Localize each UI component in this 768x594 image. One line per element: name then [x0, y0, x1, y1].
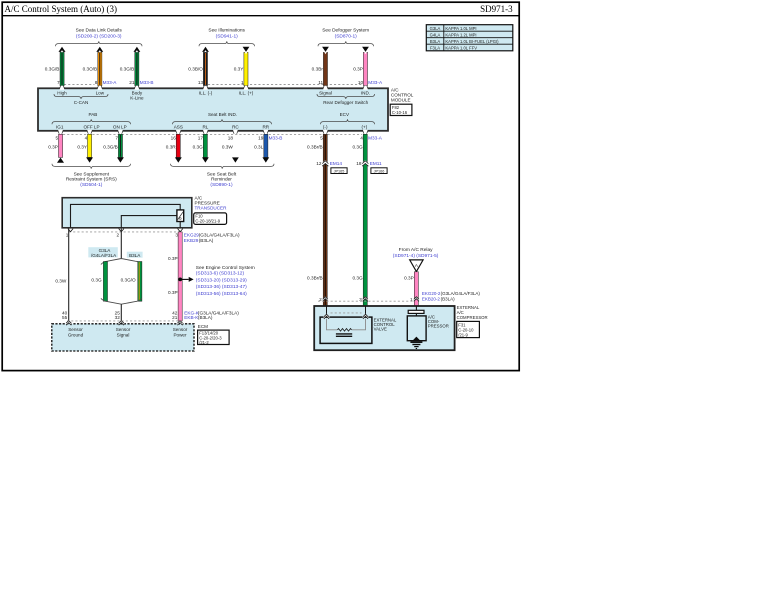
dashed net line valve pins: [331, 312, 362, 314]
svg-text:12: 12: [316, 161, 322, 166]
svg-text:G3LA: G3LA: [430, 26, 441, 31]
svg-text:RL: RL: [202, 124, 208, 129]
svg-text:Sensor: Sensor: [173, 327, 188, 332]
svg-text:Restraint System (SRS): Restraint System (SRS): [66, 177, 117, 183]
arrow (down) pin 1: [243, 47, 250, 52]
valve coil circuit: [327, 319, 366, 331]
svg-text:0.3G: 0.3G: [193, 144, 204, 149]
wire top 0.3G/B pin 21: [135, 52, 139, 85]
svg-text:(SD200-2) (SD200-3): (SD200-2) (SD200-3): [76, 34, 122, 40]
svg-text:From A/C Relay: From A/C Relay: [399, 247, 433, 253]
pin notch pin 16: [176, 130, 181, 134]
svg-text:5: 5: [320, 136, 323, 141]
svg-text:0.3R: 0.3R: [166, 144, 177, 149]
transducer sensor symbol: [177, 210, 184, 222]
svg-text:ECM: ECM: [198, 324, 208, 329]
pin chevron ECM pin Sensor Ground: [66, 321, 71, 326]
svg-text:IG1: IG1: [56, 124, 64, 129]
wire bottom 0.3R pin 16: [176, 134, 180, 157]
svg-text:COMPRESSOR: COMPRESSOR: [457, 315, 488, 320]
wire 0.3W sensor ground: [68, 229, 70, 324]
svg-text:16: 16: [171, 136, 177, 141]
label EXTERNAL A/C COMPRESSOR: [457, 305, 488, 320]
svg-text:G4LA: G4LA: [430, 32, 441, 37]
svg-text:10: 10: [358, 80, 364, 85]
svg-text:0.3G: 0.3G: [353, 275, 364, 280]
title separator line: [2, 15, 519, 17]
arrow (up) pin 5 (to SRS): [57, 158, 64, 163]
branch split: [101, 259, 142, 265]
note: See Engine Control System: [196, 265, 255, 297]
wire ECV 0.3G: [363, 134, 367, 306]
wire bottom 0.3P pin 5: [59, 134, 63, 157]
wire ECV 0.3Br/B: [323, 134, 327, 306]
svg-text:See Seat Belt: See Seat Belt: [207, 171, 237, 177]
svg-text:0.3G: 0.3G: [91, 278, 102, 283]
svg-text:0.3Br/B: 0.3Br/B: [307, 275, 323, 280]
svg-text:(-): (-): [323, 124, 328, 129]
svg-text:See Defogger System: See Defogger System: [322, 28, 369, 34]
brace ECV group: [321, 119, 375, 124]
transducer internal wire pin1: [71, 204, 181, 227]
brace seat belt group: [173, 119, 272, 124]
svg-text:(SD313-56) (SD313-64): (SD313-56) (SD313-64): [196, 291, 247, 297]
internal wire to valve pin left: [326, 307, 328, 315]
arrow (down) pin 11: [322, 47, 329, 52]
arrow (down) pin 16: [175, 157, 182, 162]
pin notch pin 21: [135, 86, 140, 90]
svg-text:0.3P: 0.3P: [404, 275, 414, 280]
svg-text:13: 13: [198, 80, 204, 85]
svg-text:21: 21: [129, 80, 135, 85]
svg-text:/21-2: /21-2: [199, 340, 209, 345]
ground symbol: [410, 342, 422, 348]
svg-text:Low: Low: [96, 90, 105, 95]
svg-text:0.3Br/B: 0.3Br/B: [307, 144, 323, 149]
wire top 0.3Br pin 11: [323, 52, 327, 85]
svg-text:See Supplement: See Supplement: [74, 171, 110, 177]
pin name Sensor Ground: [68, 327, 84, 338]
svg-text:18: 18: [356, 161, 362, 166]
brace SRS note group: [52, 164, 131, 169]
arrow (up) pin 13: [202, 47, 209, 52]
svg-text:/G4LA/F3LA: /G4LA/F3LA: [91, 253, 117, 258]
dashed net line module bottom pins: [63, 133, 362, 135]
svg-text:0.3G: 0.3G: [353, 144, 364, 149]
svg-text:A/C Control System (Auto) (3): A/C Control System (Auto) (3): [5, 4, 118, 14]
valve core lines: [336, 334, 352, 336]
dashed net line compressor pins: [318, 300, 413, 302]
pin chevron compressor pin 3: [363, 297, 368, 302]
pin chevron valve pin right: [363, 314, 368, 319]
svg-text:(SD971-4) (SD971-5): (SD971-4) (SD971-5): [393, 253, 439, 259]
wire branch 0.3G (G3LA/G4LA/F3LA): [103, 262, 107, 302]
svg-text:M33-A: M33-A: [103, 80, 118, 85]
svg-text:(SD504-1): (SD504-1): [80, 182, 103, 188]
wire bottom 0.3Y pin 4: [88, 134, 92, 157]
svg-text:0.3P: 0.3P: [48, 144, 58, 149]
wire top 0.3P pin 10: [363, 52, 367, 85]
svg-text:C-20-18/21-9: C-20-18/21-9: [195, 219, 220, 224]
svg-text:See Data Link Details: See Data Link Details: [76, 28, 123, 34]
wire A/C relay 0.3P: [414, 272, 418, 307]
pin chevron compressor pin 1: [414, 297, 419, 302]
svg-text:(B3LA): (B3LA): [441, 297, 456, 302]
brace seat belt note group: [171, 164, 275, 169]
svg-text:M33-A: M33-A: [368, 80, 383, 85]
svg-text:JP166: JP166: [374, 169, 385, 173]
svg-text:M33-B: M33-B: [140, 80, 154, 85]
svg-text:0.3B/O: 0.3B/O: [188, 67, 203, 72]
svg-text:1: 1: [241, 80, 244, 85]
brace data link group: [56, 41, 143, 46]
svg-text:32: 32: [115, 315, 121, 320]
external A/C compressor box: [314, 306, 454, 350]
brace illuminations group: [199, 41, 255, 46]
connector ref box JP166: [371, 168, 387, 174]
svg-text:EM11: EM11: [370, 161, 382, 166]
svg-text:MODULE: MODULE: [391, 98, 411, 103]
svg-text:SD971-3: SD971-3: [480, 4, 513, 14]
pin notch pin 5: [58, 130, 63, 134]
brace rear defogger switch group: [317, 94, 375, 99]
wire sensor signal lower: [120, 304, 122, 324]
svg-text:(B3LA): (B3LA): [199, 238, 214, 243]
variant label G3LA/G4LA/F3LA: [88, 247, 118, 258]
compressor connector box F31: [457, 321, 480, 337]
pin notch pin 1: [244, 86, 249, 90]
pin arrow transducer pin 3: [178, 229, 183, 232]
pin chevron ECM pin Sensor Power: [177, 321, 182, 326]
svg-text:KAPPA 1.0L FFV: KAPPA 1.0L FFV: [445, 45, 477, 50]
svg-text:Signal: Signal: [319, 90, 332, 95]
svg-text:Reminder: Reminder: [211, 177, 232, 183]
svg-text:0.3L: 0.3L: [254, 144, 264, 149]
svg-text:0.3G/B: 0.3G/B: [103, 144, 118, 149]
svg-text:KAPPA 1.2L MPI: KAPPA 1.2L MPI: [445, 32, 476, 37]
pin notch ECV pin 4: [363, 130, 368, 134]
arrow (down) pin 17: [202, 157, 209, 162]
thermal protector bar: [408, 310, 424, 313]
svg-text:55: 55: [62, 315, 68, 320]
svg-text:21: 21: [172, 315, 178, 320]
svg-text:5: 5: [55, 136, 58, 141]
svg-text:(+): (+): [362, 124, 368, 129]
module name A/C CONTROL MODULE: [391, 88, 414, 103]
svg-text:0.3G/O: 0.3G/O: [121, 278, 136, 283]
svg-text:(SD890-1): (SD890-1): [210, 182, 233, 188]
svg-text:0.3Y: 0.3Y: [234, 67, 245, 72]
branch arrow to engine control system: [180, 277, 193, 282]
svg-text:See Illuminations: See Illuminations: [208, 28, 245, 34]
pin chevron ECM pin Sensor Signal: [119, 321, 124, 326]
arrow (down) pin 7: [117, 157, 124, 162]
svg-text:(SD870-1): (SD870-1): [335, 34, 358, 40]
pin chevron compressor pin 2: [323, 297, 328, 302]
svg-text:F3LA: F3LA: [430, 45, 440, 50]
svg-text:KAPPA 1.0L MPI: KAPPA 1.0L MPI: [445, 26, 476, 31]
svg-text:TRANSDUCER: TRANSDUCER: [195, 206, 228, 211]
ECM pin numbers 25/32: [115, 310, 121, 320]
svg-text:0.3Y: 0.3Y: [77, 144, 88, 149]
wire branch 0.3G/O (B3LA): [138, 262, 142, 302]
wire sensor signal upper: [120, 229, 122, 259]
svg-text:19: 19: [258, 136, 264, 141]
note: See Illuminations: [208, 28, 245, 40]
pin notch pin 10: [363, 86, 368, 90]
svg-text:7: 7: [115, 136, 118, 141]
svg-text:EKG29: EKG29: [184, 233, 200, 238]
svg-text:ECV: ECV: [340, 112, 350, 117]
arrow (up) pin 8: [96, 47, 103, 52]
connector labels EKG20-2 / EKB20-2: [422, 291, 480, 301]
svg-text:0.3O/B: 0.3O/B: [83, 67, 98, 72]
transducer name label: [195, 196, 228, 211]
svg-text:OFF LP: OFF LP: [83, 124, 99, 129]
dashed net line ECM pins: [67, 320, 181, 322]
pin notch pin 7: [60, 86, 65, 90]
svg-text:0.3P: 0.3P: [168, 256, 178, 261]
svg-text:Sensor: Sensor: [68, 327, 83, 332]
svg-text:M33-A: M33-A: [368, 136, 383, 141]
svg-text:EKG20-2: EKG20-2: [422, 291, 441, 296]
svg-text:0.3P: 0.3P: [168, 290, 178, 295]
pin notch pin 4: [87, 130, 92, 134]
external control valve box: [320, 317, 372, 343]
svg-text:PRESSOR: PRESSOR: [428, 324, 449, 329]
pin notch pin 11: [323, 86, 328, 90]
branch merge: [101, 298, 142, 304]
lead to clutch coil: [415, 313, 417, 316]
svg-text:0.3P: 0.3P: [353, 67, 363, 72]
note: See Supplement Restraint System: [66, 171, 117, 187]
svg-text:2: 2: [116, 232, 119, 237]
svg-text:VALVE: VALVE: [374, 327, 387, 332]
internal wire to valve pin right: [365, 307, 367, 315]
wire top 0.3Y pin 1: [244, 52, 248, 85]
note: See Data Link Details: [76, 28, 123, 40]
svg-text:4: 4: [85, 136, 88, 141]
svg-text:0.3G/B: 0.3G/B: [120, 67, 135, 72]
label EXTERNAL CONTROL VALVE: [374, 317, 397, 331]
svg-text:ILL. (-): ILL. (-): [199, 91, 213, 96]
pin notch pin 8: [97, 86, 102, 90]
arrow (down) pin 4: [86, 157, 93, 162]
module connector box F82 C-10-16: [390, 104, 412, 115]
svg-text:B3LA: B3LA: [129, 253, 141, 258]
svg-text:K-Line: K-Line: [130, 95, 144, 100]
pin name Body K-Line: [130, 90, 144, 100]
svg-text:0.3G/B: 0.3G/B: [45, 67, 60, 72]
dashed net line pins 13-1-11-10: [208, 84, 362, 86]
pin name Sensor Signal: [116, 327, 131, 338]
svg-text:Ground: Ground: [68, 333, 84, 338]
svg-text:(B3LA): (B3LA): [198, 315, 213, 320]
wire top 0.3B/O pin 13: [203, 52, 207, 85]
svg-text:0.3Br: 0.3Br: [312, 67, 324, 72]
svg-text:IND.: IND.: [361, 90, 370, 95]
wire top 0.3G/B pin 7: [60, 52, 64, 85]
pin notch pin 18: [233, 130, 238, 134]
svg-text:RR: RR: [262, 124, 269, 129]
svg-text:Rear Defogger Switch: Rear Defogger Switch: [323, 100, 368, 105]
variant label B3LA: [127, 252, 143, 258]
pin notch pin 13: [203, 86, 208, 90]
svg-text:17: 17: [198, 136, 204, 141]
arrow (up) pin 7: [59, 47, 66, 52]
svg-text:0.3W: 0.3W: [222, 144, 234, 149]
svg-text:ON LP: ON LP: [113, 124, 127, 129]
note: See Defogger System: [322, 28, 369, 40]
svg-text:JP165: JP165: [334, 169, 345, 173]
connector chevron inline connector EM11: [362, 161, 368, 166]
arrow (down) pin 19: [262, 157, 269, 162]
wire bottom 0.3L pin 19: [264, 134, 268, 157]
wire bottom 0.3G/B pin 7: [118, 134, 122, 157]
connector chevron inline connector EM14: [322, 161, 328, 166]
note: From A/C Relay: [393, 247, 439, 259]
arrow (up) pin 21: [134, 47, 141, 52]
legend table: [426, 25, 513, 51]
pin name Sensor Power: [173, 327, 188, 338]
svg-text:0.3W: 0.3W: [55, 278, 67, 283]
transducer internal wire pin2: [121, 216, 177, 228]
note: See Seat Belt Reminder: [207, 171, 237, 187]
svg-text:Power: Power: [173, 333, 186, 338]
svg-text:7: 7: [57, 80, 60, 85]
svg-text:Seat Belt IND.: Seat Belt IND.: [208, 112, 237, 117]
pin notch ECV pin 5: [323, 130, 328, 134]
A/C control module box: [38, 88, 388, 131]
dashed net line transducer pins: [69, 231, 181, 233]
svg-text:ASS: ASS: [174, 124, 183, 129]
arrow (down) pin 10: [362, 47, 369, 52]
brace PAB group: [52, 119, 131, 124]
power source triangle A: [410, 260, 423, 272]
label A/C COMPRESSOR (inner): [428, 315, 449, 329]
arrow (down) pin 18: [232, 157, 239, 162]
svg-text:(G3LA/G4LA/F3LA): (G3LA/G4LA/F3LA): [199, 233, 240, 238]
svg-text:High: High: [57, 90, 67, 95]
pin chevron valve pin left: [324, 314, 329, 319]
wire bottom 0.3G pin 17: [203, 134, 207, 157]
pin arrow transducer pin 2: [119, 229, 124, 232]
wire sensor power 0.3P: [178, 232, 182, 321]
pin notch pin 7: [118, 130, 123, 134]
svg-text:Signal: Signal: [117, 333, 130, 338]
svg-text:B3LA: B3LA: [430, 39, 440, 44]
junction dot: [178, 278, 182, 282]
svg-text:/21-9: /21-9: [458, 332, 468, 337]
svg-text:Sensor: Sensor: [116, 327, 131, 332]
compressor thermal protector lead: [415, 307, 417, 311]
svg-text:(SD313-6) (SD313-12): (SD313-6) (SD313-12): [196, 271, 245, 277]
dashed net line pins 7-8: [64, 84, 95, 86]
svg-text:C-CAN: C-CAN: [74, 100, 89, 105]
transducer connector box F10 C-20-18/21-9: [194, 213, 227, 225]
wire top 0.3O/B pin 8: [98, 52, 102, 85]
svg-text:8: 8: [95, 80, 98, 85]
pin notch pin 19: [263, 130, 268, 134]
pin notch pin 17: [203, 130, 208, 134]
svg-text:4: 4: [360, 136, 363, 141]
svg-text:See Engine Control System: See Engine Control System: [196, 265, 255, 271]
diagram outer frame: [2, 2, 519, 370]
svg-text:EM14: EM14: [330, 161, 343, 166]
ECM pin numbers 42/21 with EKG-K/EKB-K: [172, 310, 239, 320]
ECM box: [52, 324, 194, 351]
svg-text:EKB29: EKB29: [184, 238, 199, 243]
svg-text:M33-B: M33-B: [269, 136, 283, 141]
A/C pressure transducer box: [62, 198, 192, 228]
pin arrow transducer pin 1: [68, 229, 73, 232]
connector ref box JP165: [331, 168, 347, 174]
brace C-CAN group: [54, 94, 108, 99]
brace defogger group: [318, 41, 374, 46]
svg-text:PAB: PAB: [88, 112, 97, 117]
svg-text:RC: RC: [232, 124, 239, 129]
svg-text:C-10-16: C-10-16: [392, 110, 408, 115]
svg-text:11: 11: [318, 80, 323, 85]
svg-text:(SD313-36) (SD313-47): (SD313-36) (SD313-47): [196, 284, 247, 290]
svg-text:(G3LA/G4LA/F3LA): (G3LA/G4LA/F3LA): [441, 291, 481, 296]
svg-text:ILL. (+): ILL. (+): [239, 91, 254, 96]
wire labels EKG29/EKB29: [184, 233, 240, 244]
ground arrow inside coil box: [413, 337, 420, 341]
compressor clutch coil box: [407, 316, 426, 341]
ECM pin numbers 40/55: [62, 310, 68, 320]
svg-text:(SD313-20) (SD313-29): (SD313-20) (SD313-29): [196, 277, 247, 283]
svg-text:18: 18: [228, 136, 234, 141]
svg-text:EKB20-2: EKB20-2: [422, 297, 441, 302]
svg-text:(SD941-1): (SD941-1): [216, 34, 239, 40]
transducer internal wire pin3: [179, 221, 181, 228]
svg-text:KAPPA 1.0L BI-FUEL (LPGI): KAPPA 1.0L BI-FUEL (LPGI): [445, 39, 499, 44]
ECM connector box: [198, 330, 230, 345]
